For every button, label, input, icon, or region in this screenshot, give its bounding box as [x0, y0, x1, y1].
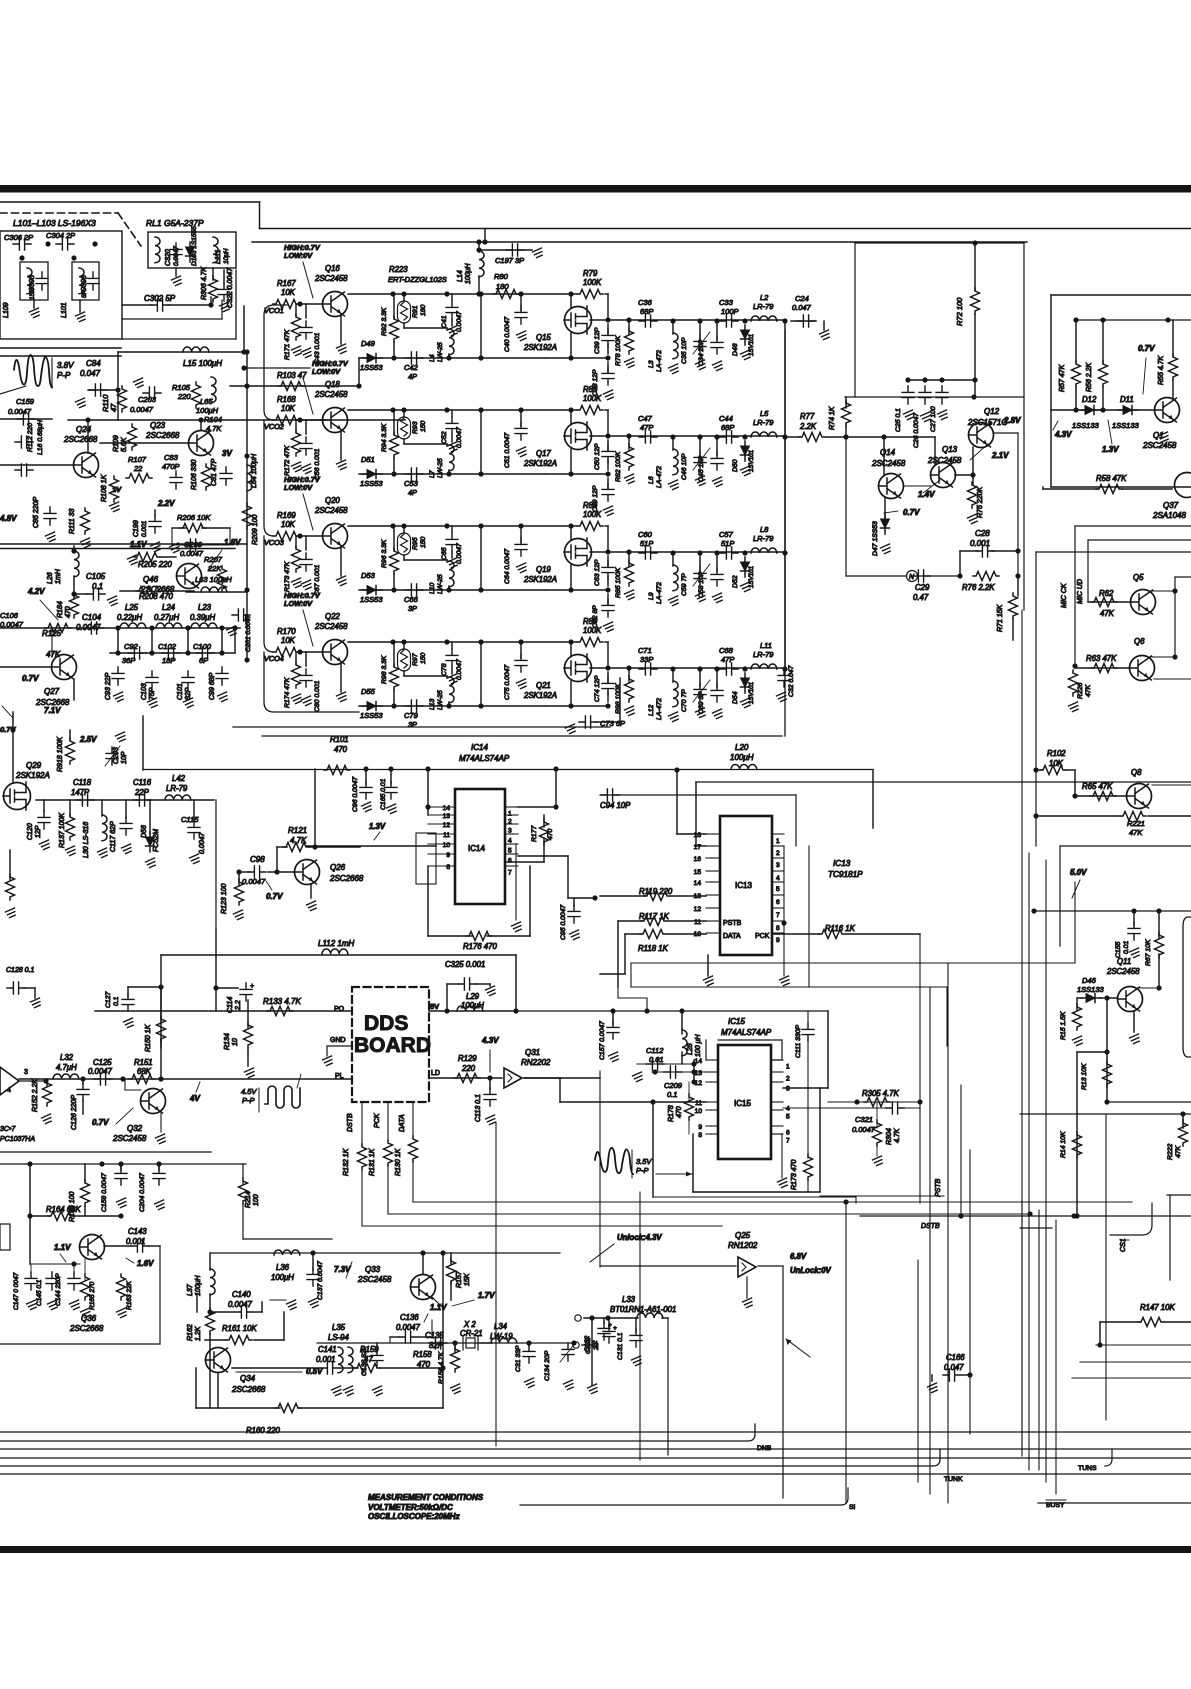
svg-text:Q33: Q33: [365, 1265, 381, 1274]
svg-text:LW-25: LW-25: [437, 342, 444, 362]
svg-text:C31 33P: C31 33P: [515, 1345, 522, 1372]
svg-text:R96 3.3K: R96 3.3K: [381, 539, 388, 568]
svg-text:47K: 47K: [1175, 1145, 1182, 1158]
svg-text:BUSY: BUSY: [1046, 1502, 1065, 1509]
svg-text:4.7μH: 4.7μH: [56, 1063, 77, 1072]
svg-text:8: 8: [446, 864, 450, 871]
svg-text:1SV101: 1SV101: [748, 450, 755, 472]
svg-text:100μH: 100μH: [730, 753, 754, 762]
svg-text:C132: C132: [585, 1338, 592, 1354]
svg-text:Q22: Q22: [325, 612, 340, 621]
svg-text:R86: R86: [583, 501, 598, 510]
svg-text:C113 0.1: C113 0.1: [475, 1094, 482, 1122]
svg-text:15K: 15K: [464, 1273, 471, 1286]
svg-text:4.8V: 4.8V: [0, 514, 17, 523]
svg-text:2: 2: [786, 1076, 790, 1083]
svg-text:2SC2668: 2SC2668: [63, 435, 98, 444]
svg-text:R13 10K: R13 10K: [1081, 1063, 1088, 1090]
svg-text:Q21: Q21: [536, 681, 551, 690]
svg-text:IC15: IC15: [728, 1017, 745, 1026]
svg-text:C41: C41: [441, 315, 448, 328]
svg-text:R168: R168: [277, 395, 296, 404]
svg-text:2SC2458: 2SC2458: [1106, 967, 1140, 976]
svg-text:C112: C112: [646, 1046, 664, 1055]
svg-text:1SS133: 1SS133: [1112, 421, 1140, 430]
svg-text:R132 1K: R132 1K: [343, 1148, 350, 1176]
svg-text:4: 4: [508, 838, 512, 845]
svg-text:C45 15P: C45 15P: [698, 455, 705, 482]
svg-text:D56: D56: [141, 825, 148, 838]
svg-text:2SC2668: 2SC2668: [231, 1385, 266, 1394]
svg-text:DDS: DDS: [364, 1012, 408, 1035]
svg-text:14: 14: [694, 880, 702, 887]
svg-text:0.0047: 0.0047: [180, 549, 204, 558]
svg-text:C144 220P: C144 220P: [55, 1273, 62, 1306]
svg-text:C127: C127: [105, 992, 112, 1008]
svg-text:C71: C71: [638, 646, 652, 655]
svg-text:C120: C120: [27, 823, 34, 840]
svg-text:0.01: 0.01: [649, 1055, 664, 1064]
svg-text:R78 100K: R78 100K: [615, 335, 622, 366]
svg-text:C104: C104: [82, 613, 102, 622]
svg-text:2SC2668: 2SC2668: [69, 1324, 104, 1333]
svg-text:Q16: Q16: [325, 264, 340, 273]
svg-text:Q34: Q34: [240, 1374, 256, 1383]
svg-text:C27 100: C27 100: [930, 406, 937, 432]
svg-text:R133 4.7K: R133 4.7K: [263, 997, 301, 1006]
svg-text:D11: D11: [1120, 395, 1134, 404]
svg-text:1.2K: 1.2K: [195, 1326, 202, 1341]
svg-text:R130 1K: R130 1K: [395, 1148, 402, 1176]
svg-text:R169: R169: [277, 511, 296, 520]
svg-text:C34 20P: C34 20P: [698, 339, 705, 366]
svg-text:0.0047: 0.0047: [456, 543, 463, 564]
svg-text:L32: L32: [60, 1053, 74, 1062]
svg-text:L24: L24: [162, 603, 176, 612]
svg-text:FC52M: FC52M: [153, 829, 160, 852]
svg-text:C116: C116: [133, 778, 152, 787]
svg-text:51P: 51P: [721, 539, 734, 548]
svg-text:470: 470: [676, 1106, 683, 1118]
svg-text:Q11: Q11: [1117, 957, 1131, 966]
svg-text:100K: 100K: [583, 510, 602, 519]
svg-text:3.5V: 3.5V: [636, 1157, 652, 1166]
svg-text:100P: 100P: [721, 307, 739, 316]
svg-text:C106: C106: [0, 611, 19, 620]
svg-text:0.0047: 0.0047: [456, 659, 463, 680]
svg-text:C74 12P: C74 12P: [594, 675, 601, 702]
svg-text:R76 2.2K: R76 2.2K: [962, 583, 995, 592]
svg-text:100μH: 100μH: [465, 262, 472, 284]
svg-text:51P: 51P: [640, 539, 653, 548]
svg-text:PSTB: PSTB: [723, 920, 742, 927]
svg-text:5: 5: [786, 1114, 790, 1121]
svg-text:P-P: P-P: [242, 1096, 255, 1105]
svg-text:R65 47K: R65 47K: [1082, 782, 1113, 791]
svg-text:LW-25: LW-25: [437, 458, 444, 478]
svg-text:R105: R105: [172, 383, 191, 392]
svg-text:4: 4: [776, 875, 780, 882]
svg-text:L8: L8: [760, 525, 769, 534]
svg-text:L65: L65: [200, 397, 213, 406]
svg-text:22: 22: [593, 1342, 600, 1351]
svg-text:R178: R178: [668, 1105, 675, 1122]
svg-text:LR-79: LR-79: [753, 650, 774, 659]
svg-text:C83: C83: [164, 453, 179, 462]
svg-text:0.7V: 0.7V: [266, 892, 283, 901]
svg-text:10P: 10P: [121, 751, 128, 764]
svg-text:IC14: IC14: [471, 743, 488, 752]
svg-text:C80 0.001: C80 0.001: [314, 680, 321, 712]
svg-text:10: 10: [695, 1108, 703, 1115]
svg-text:C68: C68: [719, 646, 734, 655]
svg-text:R63 47K: R63 47K: [1086, 654, 1117, 663]
svg-text:LR-79: LR-79: [753, 534, 774, 543]
svg-text:LOW:0V: LOW:0V: [312, 367, 341, 376]
svg-text:2SC2668: 2SC2668: [145, 431, 180, 440]
svg-text:R221: R221: [1127, 819, 1145, 828]
svg-text:Q6: Q6: [1134, 637, 1145, 646]
svg-text:7.1V: 7.1V: [44, 706, 61, 715]
svg-text:Q20: Q20: [325, 496, 340, 505]
svg-text:C59 7P: C59 7P: [681, 573, 688, 596]
svg-text:2.1V: 2.1V: [991, 451, 1009, 460]
svg-text:7: 7: [776, 912, 780, 919]
svg-text:10K: 10K: [281, 636, 296, 645]
svg-text:Q12: Q12: [984, 407, 1000, 416]
svg-text:D54: D54: [732, 691, 739, 704]
svg-text:8P: 8P: [81, 289, 88, 298]
svg-text:C118: C118: [73, 778, 92, 787]
svg-text:C155: C155: [1115, 942, 1122, 958]
svg-text:L6: L6: [648, 476, 655, 484]
svg-text:TUNS: TUNS: [1078, 1465, 1097, 1472]
svg-text:3.8V: 3.8V: [57, 361, 74, 370]
svg-text:R72 100: R72 100: [955, 297, 964, 326]
svg-text:D12: D12: [1082, 395, 1097, 404]
svg-text:L29: L29: [466, 992, 480, 1001]
svg-text:100μH: 100μH: [461, 1001, 484, 1010]
svg-text:10K: 10K: [281, 404, 296, 413]
svg-text:D47 1SS53: D47 1SS53: [872, 521, 879, 556]
svg-text:R102: R102: [1047, 749, 1066, 758]
svg-text:13: 13: [443, 813, 451, 820]
svg-text:R173 47K: R173 47K: [284, 561, 291, 592]
svg-text:47P: 47P: [721, 655, 734, 664]
svg-text:M74ALS74AP: M74ALS74AP: [459, 754, 510, 763]
svg-text:R305 4.7K: R305 4.7K: [862, 1089, 900, 1098]
svg-text:C73 6P: C73 6P: [600, 719, 625, 728]
svg-text:15: 15: [694, 869, 702, 876]
svg-text:L101: L101: [61, 302, 68, 318]
svg-text:C128 0.1: C128 0.1: [6, 967, 35, 974]
svg-text:IC13: IC13: [735, 881, 752, 890]
svg-text:C103: C103: [141, 683, 148, 700]
svg-text:C39 12P: C39 12P: [594, 327, 601, 354]
svg-text:C157 0.0047: C157 0.0047: [599, 1021, 606, 1060]
svg-text:C60: C60: [638, 530, 653, 539]
svg-text:9: 9: [776, 937, 780, 944]
svg-text:C93 22P: C93 22P: [105, 672, 112, 700]
svg-text:C79: C79: [404, 711, 419, 720]
svg-text:68P: 68P: [721, 423, 734, 432]
svg-text:C50 12P: C50 12P: [594, 443, 601, 470]
svg-text:6: 6: [776, 899, 780, 906]
svg-text:C70 7P: C70 7P: [681, 689, 688, 712]
svg-text:1.8V: 1.8V: [224, 538, 241, 547]
svg-text:100: 100: [253, 1194, 260, 1206]
svg-text:C26 0.0047: C26 0.0047: [913, 413, 920, 448]
svg-text:2SC2668: 2SC2668: [329, 874, 364, 883]
svg-text:2SC2458: 2SC2458: [314, 506, 348, 515]
svg-text:C166: C166: [946, 1353, 965, 1362]
svg-text:M74ALS74AP: M74ALS74AP: [721, 1028, 772, 1037]
svg-text:C303: C303: [81, 275, 88, 292]
svg-text:R173 470: R173 470: [791, 1160, 798, 1190]
svg-text:Q31: Q31: [525, 1048, 540, 1057]
svg-text:0.7V: 0.7V: [903, 508, 920, 517]
svg-text:R79: R79: [583, 269, 598, 278]
svg-text:R162: R162: [187, 1324, 194, 1341]
svg-text:R56 2.2K: R56 2.2K: [1086, 362, 1093, 392]
svg-text:R170: R170: [277, 627, 296, 636]
svg-text:2SK192A: 2SK192A: [523, 343, 557, 352]
svg-text:0.0047: 0.0047: [228, 1300, 253, 1309]
svg-text:2SA1048: 2SA1048: [1152, 511, 1186, 520]
svg-text:R918 100K: R918 100K: [57, 737, 64, 772]
svg-text:0.22μH: 0.22μH: [117, 613, 142, 622]
svg-text:C209: C209: [664, 1081, 683, 1090]
svg-text:R67 10K: R67 10K: [1145, 939, 1152, 966]
svg-text:C25 0.1: C25 0.1: [895, 408, 902, 432]
svg-text:3P: 3P: [408, 720, 417, 729]
svg-text:C204 0.0047: C204 0.0047: [139, 1173, 146, 1212]
svg-text:C44: C44: [719, 414, 733, 423]
svg-text:Q17: Q17: [536, 449, 551, 458]
svg-text:6: 6: [786, 1130, 790, 1137]
svg-text:5.0V: 5.0V: [1070, 868, 1087, 877]
svg-text:C42: C42: [404, 363, 419, 372]
svg-text:R160 220: R160 220: [246, 1426, 280, 1435]
svg-text:C199: C199: [133, 520, 140, 537]
svg-text:C92: C92: [124, 642, 139, 651]
svg-text:2: 2: [776, 850, 780, 857]
svg-text:68P: 68P: [640, 307, 653, 316]
svg-text:14: 14: [443, 805, 451, 812]
svg-text:D103 1S1555: D103 1S1555: [191, 226, 198, 266]
svg-text:C304 2P: C304 2P: [46, 231, 75, 240]
svg-text:0.27μH: 0.27μH: [154, 613, 179, 622]
svg-text:PCK: PCK: [374, 1113, 381, 1128]
svg-text:R174 47K: R174 47K: [284, 677, 291, 708]
svg-text:68K: 68K: [137, 1067, 152, 1076]
svg-text:C75 0.0047: C75 0.0047: [504, 665, 511, 700]
svg-text:R222: R222: [1167, 1144, 1174, 1160]
svg-text:4V: 4V: [189, 1094, 200, 1103]
svg-text:11: 11: [694, 919, 701, 926]
svg-text:C125: C125: [93, 1058, 112, 1067]
svg-text:R209 100: R209 100: [252, 515, 259, 545]
svg-text:2SC2458: 2SC2458: [314, 390, 348, 399]
svg-text:L2: L2: [760, 293, 769, 302]
svg-text:47K: 47K: [1085, 684, 1092, 697]
svg-text:R77: R77: [800, 412, 815, 421]
svg-text:9: 9: [446, 852, 450, 859]
svg-text:D53: D53: [361, 571, 376, 580]
svg-text:PCK: PCK: [755, 933, 770, 940]
svg-text:L111: L111: [215, 249, 222, 264]
svg-text:C136: C136: [400, 1313, 419, 1322]
svg-text:150: 150: [420, 652, 427, 664]
svg-text:LR-79: LR-79: [753, 418, 774, 427]
svg-text:220: 220: [177, 392, 191, 401]
svg-text:Q29: Q29: [26, 761, 42, 770]
svg-text:1.6V: 1.6V: [137, 1259, 154, 1268]
svg-text:11: 11: [443, 832, 450, 839]
svg-text:R165 270: R165 270: [89, 1281, 96, 1310]
svg-text:P-P: P-P: [636, 1166, 649, 1175]
svg-text:1.1V: 1.1V: [430, 1303, 447, 1312]
svg-text:470: 470: [334, 745, 348, 754]
svg-text:LOW:0V: LOW:0V: [284, 599, 313, 608]
svg-text:4.3V: 4.3V: [1054, 430, 1072, 439]
svg-text:C321: C321: [855, 1115, 873, 1124]
svg-text:4: 4: [7, 1087, 11, 1094]
svg-text:PC1037HA: PC1037HA: [0, 1136, 35, 1143]
svg-text:2SK192A: 2SK192A: [523, 691, 557, 700]
svg-text:1: 1: [786, 1064, 790, 1071]
svg-text:6.8V: 6.8V: [790, 1252, 807, 1261]
svg-text:C137 0.0047: C137 0.0047: [317, 1261, 324, 1300]
svg-text:L64 100μH: L64 100μH: [251, 453, 258, 488]
svg-text:C96 0.0047: C96 0.0047: [352, 777, 359, 812]
svg-text:R164 68K: R164 68K: [46, 1205, 81, 1214]
svg-text:1mH: 1mH: [55, 568, 62, 584]
svg-text:R223: R223: [389, 265, 408, 274]
svg-text:2.2: 2.2: [235, 1000, 242, 1011]
svg-text:2SK192A: 2SK192A: [523, 575, 557, 584]
svg-text:DATA: DATA: [399, 1114, 406, 1132]
svg-text:7: 7: [508, 870, 512, 877]
svg-text:0.7V: 0.7V: [92, 1118, 109, 1127]
svg-text:C53: C53: [404, 479, 419, 488]
svg-text:LW-25: LW-25: [437, 690, 444, 710]
svg-text:P-P: P-P: [57, 371, 71, 380]
svg-text:8: 8: [698, 1132, 702, 1139]
svg-text:1: 1: [776, 838, 780, 845]
svg-text:L28: L28: [687, 1043, 694, 1055]
svg-text:3: 3: [776, 862, 780, 869]
svg-text:R83: R83: [583, 385, 598, 394]
svg-text:R103 47: R103 47: [277, 371, 307, 380]
svg-text:L37: L37: [187, 1283, 194, 1296]
svg-text:R98 3.3K: R98 3.3K: [381, 655, 388, 684]
svg-text:R88 100K: R88 100K: [615, 683, 622, 714]
svg-text:LS-94: LS-94: [328, 1333, 349, 1342]
svg-text:Q26: Q26: [330, 863, 346, 872]
svg-text:1.3V: 1.3V: [1102, 445, 1119, 454]
svg-text:2SC2458: 2SC2458: [1142, 441, 1177, 450]
svg-text:C24: C24: [795, 294, 809, 303]
svg-text:0.0047: 0.0047: [130, 405, 154, 414]
svg-text:R226: R226: [1077, 683, 1084, 699]
svg-text:C40 0.0047: C40 0.0047: [504, 317, 511, 352]
svg-text:C35 10P: C35 10P: [681, 337, 688, 364]
svg-text:C78: C78: [441, 663, 448, 676]
svg-text:C320: C320: [165, 249, 172, 266]
svg-text:Q18: Q18: [325, 380, 340, 389]
svg-text:RN2202: RN2202: [521, 1058, 551, 1067]
svg-text:C84: C84: [86, 359, 101, 368]
svg-text:1SS133: 1SS133: [1072, 421, 1100, 430]
svg-text:2SC2458: 2SC2458: [871, 459, 906, 468]
svg-text:LA-472: LA-472: [656, 350, 663, 372]
svg-text:5V: 5V: [430, 1002, 439, 1011]
svg-text:DNB: DNB: [757, 1445, 772, 1452]
svg-text:R89: R89: [583, 617, 598, 626]
svg-text:18P: 18P: [162, 656, 175, 665]
svg-text:R207: R207: [204, 555, 223, 564]
svg-text:0.0047: 0.0047: [88, 1067, 113, 1076]
svg-text:1.1V: 1.1V: [54, 1243, 71, 1252]
svg-text:0.0047: 0.0047: [396, 1323, 421, 1332]
svg-text:C114: C114: [227, 997, 234, 1013]
svg-text:R131 1K: R131 1K: [369, 1148, 376, 1176]
svg-text:1.4V: 1.4V: [918, 490, 935, 499]
svg-text:L5: L5: [760, 409, 769, 418]
svg-text:L16 0.68μH: L16 0.68μH: [37, 420, 44, 455]
svg-text:47K: 47K: [1100, 609, 1115, 618]
svg-text:0.7V: 0.7V: [0, 725, 16, 734]
svg-text:Q13: Q13: [942, 445, 958, 454]
svg-text:3V: 3V: [222, 449, 232, 458]
svg-text:C115: C115: [181, 815, 199, 824]
svg-text:Q8: Q8: [1131, 768, 1142, 777]
svg-text:2.2V: 2.2V: [157, 499, 175, 508]
svg-text:2SC2458: 2SC2458: [112, 1134, 147, 1143]
svg-text:R176 470: R176 470: [463, 942, 497, 951]
svg-text:Q1: Q1: [1153, 431, 1164, 440]
svg-text:2.8V: 2.8V: [1003, 416, 1021, 425]
svg-text:C57: C57: [719, 530, 734, 539]
svg-text:MIC CK: MIC CK: [1061, 583, 1068, 608]
svg-text:C147 0 0047: C147 0 0047: [13, 1272, 20, 1310]
svg-text:1.3V: 1.3V: [369, 822, 386, 831]
svg-text:7.3V: 7.3V: [334, 1265, 351, 1274]
svg-text:R57 47K: R57 47K: [1059, 364, 1066, 392]
svg-text:6P: 6P: [199, 656, 208, 665]
svg-text:100μH: 100μH: [271, 1273, 294, 1282]
svg-text:C197 3P: C197 3P: [495, 256, 524, 265]
svg-text:LA-472: LA-472: [656, 698, 663, 720]
svg-text:R85 100K: R85 100K: [615, 567, 622, 598]
svg-text:LR-79: LR-79: [753, 302, 774, 311]
svg-text:R152 2.2K: R152 2.2K: [32, 1079, 39, 1112]
svg-text:C69 3P: C69 3P: [698, 691, 705, 714]
svg-text:C135: C135: [425, 1331, 444, 1340]
svg-text:7: 7: [786, 1138, 790, 1145]
svg-text:2SK192A: 2SK192A: [15, 771, 50, 780]
svg-text:5: 5: [776, 886, 780, 893]
svg-text:OSCILLOSCOPE:20MHz: OSCILLOSCOPE:20MHz: [368, 1512, 460, 1521]
svg-text:0.39μH: 0.39μH: [190, 613, 215, 622]
svg-text:R92 3.3K: R92 3.3K: [381, 307, 388, 336]
svg-text:8: 8: [776, 925, 780, 932]
svg-text:R112 220: R112 220: [27, 423, 34, 452]
svg-text:L30 LS-316: L30 LS-316: [83, 822, 90, 858]
svg-text:C58 10P: C58 10P: [698, 571, 705, 598]
svg-text:TUNK: TUNK: [944, 1476, 963, 1483]
